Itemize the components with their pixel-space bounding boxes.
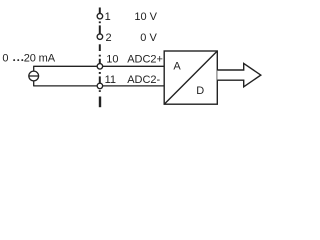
output block arrow: [217, 63, 260, 86]
svg-text:D: D: [196, 85, 204, 97]
svg-text:10: 10: [106, 53, 118, 65]
terminal 2: [97, 34, 103, 40]
wire: bottom signal wire (ADC2-) from source to A/D box: [33, 85, 164, 87]
module boundary dash-dot line: [99, 8, 101, 108]
svg-text:A: A: [173, 61, 181, 73]
svg-text:11: 11: [105, 74, 116, 86]
svg-text:ADC2+: ADC2+: [127, 53, 163, 65]
svg-text:1: 1: [105, 11, 111, 23]
svg-text:2: 2: [106, 32, 112, 44]
wire: top signal wire (ADC2+) from source to A/D box: [33, 65, 164, 67]
current source B1 (0...20 mA signal source): [29, 66, 39, 86]
svg-text:ADC2-: ADC2-: [127, 74, 160, 86]
A/D converter U1 box: [164, 51, 217, 104]
svg-text:20: 20: [24, 52, 36, 64]
terminal 11: [97, 83, 103, 89]
svg-text:0: 0: [2, 52, 8, 64]
svg-text:0 V: 0 V: [140, 32, 157, 44]
svg-text:mA: mA: [39, 52, 56, 64]
svg-text:10 V: 10 V: [134, 11, 157, 23]
terminal 1: [97, 13, 103, 19]
terminal 10: [97, 64, 103, 70]
